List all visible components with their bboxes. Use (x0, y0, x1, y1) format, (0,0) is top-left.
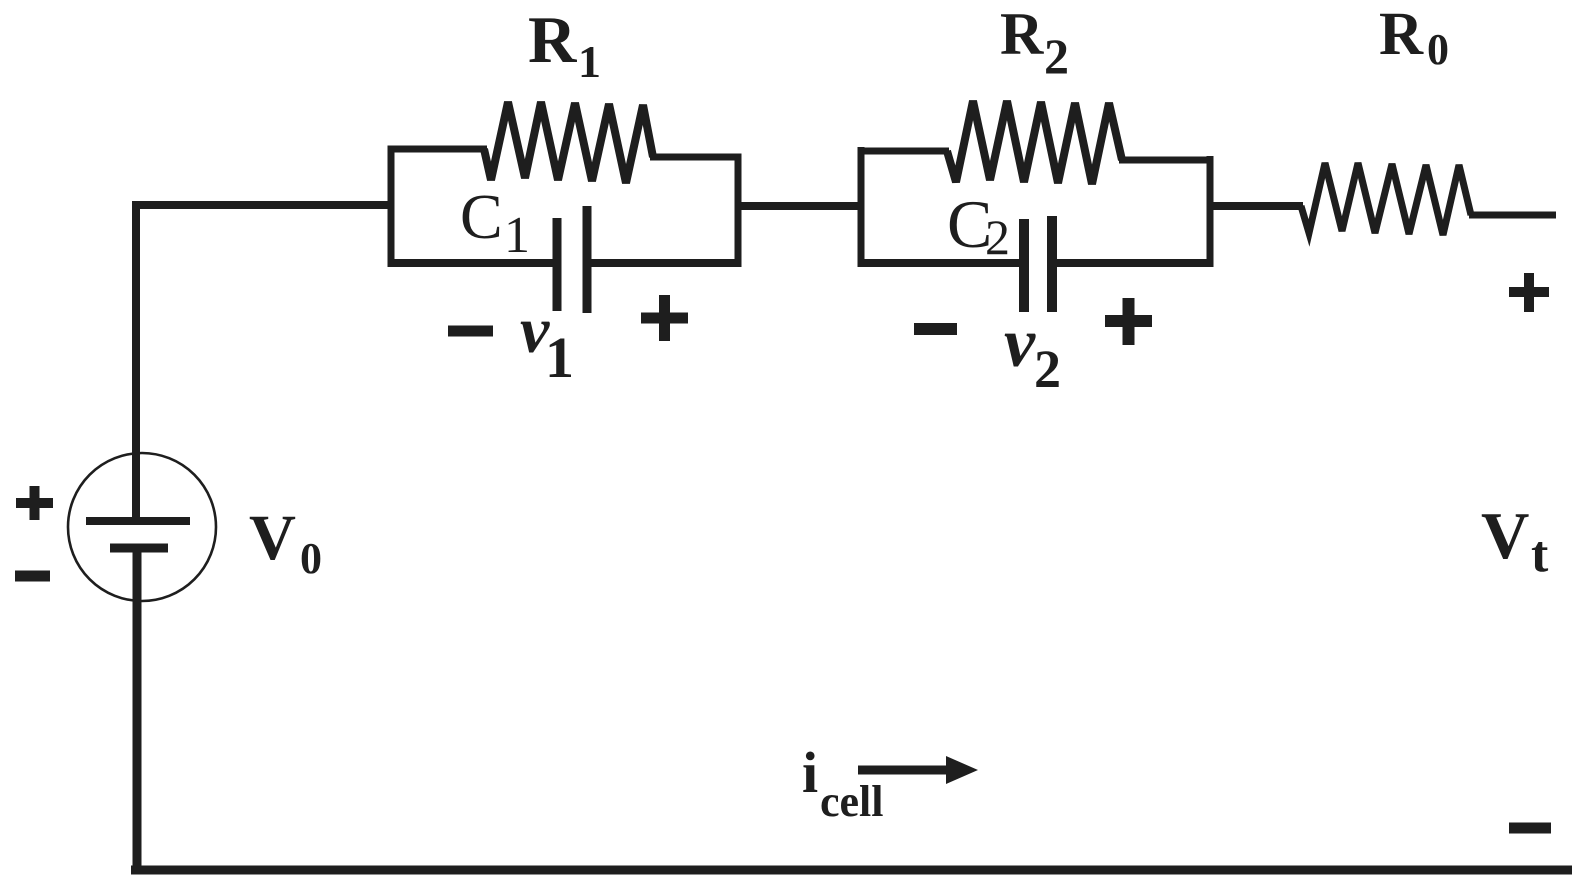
wire: battery - terminal down to bottom rail (133, 546, 142, 868)
voltage source V0 (battery in circle) (68, 453, 216, 601)
label R0 (1379, 1, 1449, 74)
capacitor C1 left plate (553, 218, 562, 311)
battery minus sign (15, 571, 50, 582)
label C2 (947, 186, 1010, 265)
svg-text:C: C (460, 181, 503, 252)
R2C2 parallel box: left edge (858, 147, 865, 267)
capacitor C1 right plate (583, 206, 592, 313)
svg-text:0: 0 (1427, 25, 1449, 74)
capacitor C2 left plate (1019, 219, 1029, 312)
R1C1 box: bottom edge right segment (591, 259, 742, 267)
svg-text:2: 2 (985, 209, 1010, 265)
R1C1 box: top edge right segment (650, 154, 742, 161)
wire: bottom rail (131, 866, 1572, 875)
svg-text:1: 1 (578, 36, 601, 87)
R1C1 box: right edge (735, 154, 742, 268)
label v1 (520, 294, 574, 390)
R2C2 box: top edge right segment (1119, 157, 1214, 164)
resistor R1 zigzag (484, 102, 653, 183)
current arrow i_cell (858, 756, 978, 784)
R1C1 box: top edge left segment (388, 146, 488, 153)
svg-text:V: V (1481, 499, 1529, 573)
battery plus sign (16, 486, 53, 520)
label C1 (460, 181, 530, 264)
svg-text:cell: cell (820, 777, 884, 826)
label Vt (1481, 499, 1549, 583)
label v1 with polarity: minus (448, 326, 493, 337)
wire: node between R2C2 and R0 (1208, 202, 1303, 210)
label v2 (1004, 305, 1061, 399)
svg-text:V: V (249, 502, 296, 574)
terminal minus (bottom right) (1509, 823, 1551, 834)
R1C1 box: bottom edge left segment (388, 259, 554, 267)
svg-text:1: 1 (504, 207, 530, 264)
terminal plus (top right) (1509, 273, 1549, 312)
svg-text:R: R (1000, 1, 1044, 67)
R1C1 parallel box: left edge (388, 146, 395, 268)
label V0 (249, 502, 322, 583)
resistor R0 zigzag (1301, 163, 1471, 235)
svg-text:R: R (528, 3, 577, 77)
svg-text:i: i (802, 740, 818, 805)
svg-text:v: v (1004, 305, 1036, 382)
label R1 (528, 3, 601, 87)
label R2 (1000, 1, 1069, 84)
label v2 minus (914, 323, 957, 335)
R2C2 box: bottom edge right segment (1056, 259, 1214, 267)
svg-text:2: 2 (1044, 28, 1069, 84)
svg-text:t: t (1531, 526, 1549, 583)
svg-text:2: 2 (1034, 339, 1061, 399)
capacitor C2 right plate (1047, 216, 1057, 312)
wire: node between R1C1 and R2C2 (736, 202, 863, 210)
label v1 plus (641, 295, 688, 341)
wire: top-left from battery + terminal up and right to R1C1 box (136, 205, 389, 519)
R2C2 box: top edge left segment (858, 148, 950, 155)
label v2 plus (1105, 298, 1152, 345)
svg-text:0: 0 (300, 534, 322, 583)
label i_cell (802, 740, 884, 826)
R2C2 box: bottom edge left segment (858, 259, 1023, 267)
svg-text:1: 1 (545, 325, 574, 390)
R2C2 box: right edge (1207, 156, 1214, 267)
resistor R2 zigzag (947, 101, 1122, 184)
svg-text:R: R (1379, 1, 1424, 68)
wire: R0 to positive terminal (1469, 212, 1556, 219)
